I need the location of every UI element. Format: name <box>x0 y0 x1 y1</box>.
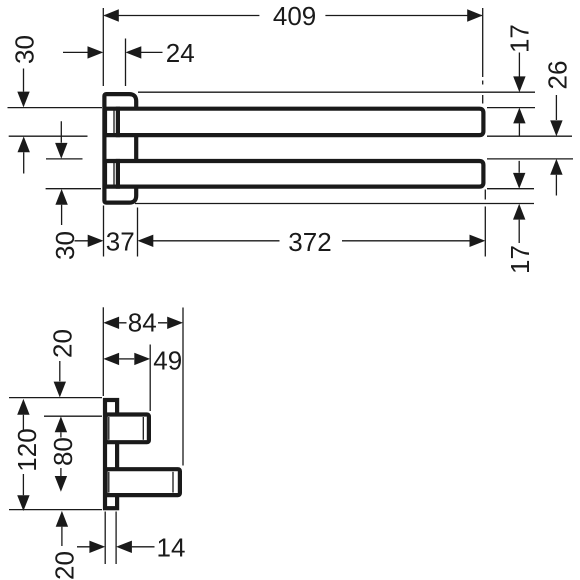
dimension 409 <box>103 1 482 31</box>
extension line 49 right vertical <box>149 345 151 412</box>
extension line bar2 top <box>46 158 573 160</box>
svg-text:372: 372 <box>288 227 331 257</box>
svg-text:24: 24 <box>166 38 195 68</box>
extension line bar2 bottom <box>46 188 534 190</box>
extension line 24 right <box>125 39 127 87</box>
extension line plate bottom left side view <box>9 509 102 511</box>
dimension 17 bottom right <box>505 161 535 274</box>
bar 1 joint thin line <box>113 110 115 134</box>
dimension 26 right <box>543 61 573 196</box>
towel bar 2 top view <box>105 161 483 187</box>
dimension 20 bottom left side view <box>50 511 80 580</box>
bar 2 joint thin line <box>113 162 115 185</box>
dimension 30 bottom left <box>50 121 80 260</box>
extension line plate top right <box>138 91 535 93</box>
extension line 37 left below <box>103 206 105 257</box>
extension line 37 right below <box>137 208 139 257</box>
svg-text:49: 49 <box>153 346 182 376</box>
extension line 84 left vertical <box>102 307 104 396</box>
svg-text:20: 20 <box>48 329 78 358</box>
svg-text:14: 14 <box>157 532 186 562</box>
extension line arm1 top left side view <box>44 415 102 417</box>
bar 2 joint thick line <box>116 159 120 189</box>
extension line 409 right with dashes <box>482 8 484 104</box>
svg-text:84: 84 <box>128 308 157 338</box>
arm 1 end cap thin line <box>142 417 144 440</box>
dimension 49 <box>103 346 182 376</box>
extension line 372 right below <box>484 190 486 257</box>
dimension 80 side view <box>48 416 78 491</box>
extension line plate top left side view <box>9 397 102 399</box>
dimension 17 top right <box>505 24 535 135</box>
dimension 37 and 372 <box>75 227 486 257</box>
wall plate side view <box>105 400 117 508</box>
dimension 30 top left <box>10 35 40 173</box>
svg-text:37: 37 <box>106 227 135 257</box>
svg-text:20: 20 <box>50 551 80 580</box>
arm 2 side view <box>106 469 180 495</box>
wall plate top view <box>104 94 136 203</box>
svg-text:30: 30 <box>10 35 40 64</box>
dimension 120 left side view <box>12 399 42 511</box>
towel bar 1 top view <box>105 109 483 135</box>
svg-text:120: 120 <box>12 428 42 471</box>
extension line bar1 top <box>8 107 536 109</box>
svg-text:409: 409 <box>273 1 316 31</box>
bar 1 joint thick line <box>116 107 120 138</box>
extension line 409 left <box>102 8 104 86</box>
svg-text:26: 26 <box>543 61 573 90</box>
extension line 84 right vertical <box>182 308 184 466</box>
extension line 14 right vertical <box>115 512 117 565</box>
svg-text:30: 30 <box>50 231 80 260</box>
arm 2 joint thin line <box>108 472 110 493</box>
dimension 14 <box>77 532 185 562</box>
dimension 84 <box>103 308 183 338</box>
extension line 14 left vertical <box>104 512 106 565</box>
arm 1 joint thin line <box>108 417 110 440</box>
extension line plate bottom right <box>135 203 534 205</box>
svg-text:17: 17 <box>505 245 535 274</box>
dimension 20 top left side view <box>48 329 78 397</box>
dimension 24 <box>63 38 195 68</box>
extension line bar1 bottom <box>9 135 572 137</box>
svg-text:17: 17 <box>505 24 535 53</box>
arm 2 end cap thin line <box>172 472 174 493</box>
svg-text:80: 80 <box>48 437 78 466</box>
arm 1 side view <box>106 415 149 443</box>
